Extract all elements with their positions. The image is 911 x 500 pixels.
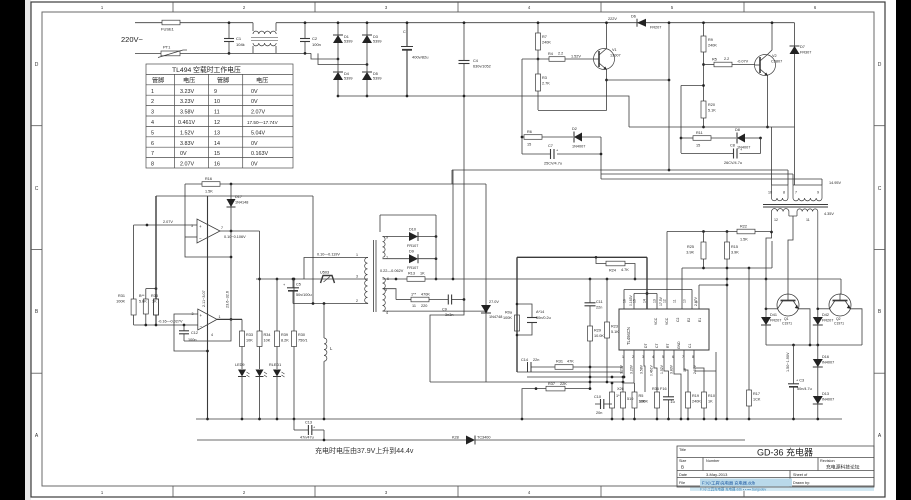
wire emitter to D6 rail [607, 79, 670, 81]
svg-text:C1: C1 [236, 36, 242, 41]
svg-text:4: 4 [151, 120, 154, 126]
wire V1 base [522, 58, 549, 60]
svg-text:C: C [403, 30, 406, 34]
resistor R31 100K [133, 225, 135, 299]
svg-text:FR307: FR307 [800, 51, 811, 55]
svg-text:Size: Size [679, 459, 686, 463]
svg-text:10K: 10K [246, 339, 253, 343]
svg-text:3.58V: 3.58V [180, 110, 194, 116]
resistor R10 1K [702, 392, 707, 408]
svg-text:5399: 5399 [344, 40, 352, 44]
LED LED9 [238, 370, 246, 377]
resistor R14 220 [396, 299, 411, 301]
svg-text:9: 9 [214, 89, 217, 95]
bridge right leg wire [366, 23, 368, 96]
svg-text:240K: 240K [542, 41, 551, 45]
svg-text:7: 7 [221, 226, 223, 230]
svg-text:4.7K: 4.7K [621, 268, 629, 272]
svg-text:3.23V: 3.23V [180, 99, 194, 105]
svg-text:220V~: 220V~ [121, 35, 144, 44]
pin voltage annotations top rotated [629, 295, 698, 306]
wire from mid-left area corner down [451, 170, 453, 184]
diode D7 FR307 [794, 23, 796, 185]
svg-text:电压: 电压 [256, 77, 268, 85]
resistor R27 510 [622, 377, 624, 392]
resistor R7 240K [537, 23, 539, 33]
svg-text:15: 15 [696, 144, 700, 148]
svg-text:20n: 20n [596, 411, 602, 415]
svg-text:R39: R39 [281, 333, 288, 337]
svg-text:1N4007: 1N4007 [572, 145, 585, 149]
pin voltage annotations bottom rotated [620, 364, 698, 376]
svg-text:14.95V: 14.95V [829, 181, 842, 185]
svg-text:5.1K: 5.1K [611, 330, 619, 334]
wire stubs into transformer primary [787, 170, 789, 185]
svg-text:750/1: 750/1 [298, 339, 308, 343]
capacitor C16 0.1u [668, 392, 670, 397]
wire Q2 base left [818, 308, 830, 310]
wire long vertical x727 junction dots [726, 284, 729, 287]
resistor R20 5.1K [701, 101, 706, 118]
svg-text:PT1: PT1 [163, 45, 171, 50]
svg-text:240K: 240K [692, 400, 701, 404]
svg-text:R36 F16: R36 F16 [652, 387, 667, 391]
svg-text:R5: R5 [712, 58, 717, 62]
LED LED10 [256, 370, 264, 377]
svg-text:0V: 0V [180, 151, 187, 157]
svg-text:Q2: Q2 [836, 317, 841, 321]
resistor R19 240K [687, 391, 689, 393]
svg-text:12: 12 [663, 299, 667, 303]
wire Q2 emitter down [851, 309, 863, 345]
resistor R37 22K row [522, 389, 546, 419]
resistor R26 1K [611, 383, 613, 392]
svg-text:5399: 5399 [373, 77, 381, 81]
svg-text:电压: 电压 [183, 77, 195, 85]
wire long vertical crossing op-amps [207, 196, 209, 419]
zener D11 1N4748 [485, 184, 487, 382]
svg-text:R7: R7 [542, 35, 547, 39]
svg-text:3.58V: 3.58V [640, 364, 644, 374]
svg-text:R24: R24 [609, 269, 616, 273]
svg-text:FR107: FR107 [407, 244, 418, 248]
wire bus down to Q2 [840, 279, 842, 294]
wire bus to transformer mid [601, 173, 793, 175]
svg-text:R17: R17 [753, 392, 760, 396]
svg-text:3-May-2013: 3-May-2013 [706, 472, 728, 477]
op-amp U1A [197, 219, 220, 243]
svg-text:2.11~3.07: 2.11~3.07 [202, 290, 206, 307]
capacitor C14b 22n and resistor R40 47K row [531, 366, 555, 368]
svg-text:C: C [878, 186, 882, 192]
wire opto box [304, 258, 368, 280]
common-mode choke L1 [252, 23, 254, 31]
svg-text:3.23V: 3.23V [620, 364, 624, 374]
svg-text:管脚: 管脚 [152, 77, 164, 85]
svg-text:25CV/4.7u: 25CV/4.7u [544, 162, 562, 166]
svg-text:3.83V: 3.83V [180, 141, 194, 147]
svg-text:10K: 10K [264, 339, 271, 343]
svg-text:Revision: Revision [820, 459, 835, 463]
svg-text:50v/100u: 50v/100u [296, 293, 312, 297]
svg-text:1**: 1** [411, 293, 417, 297]
resistor R17 10K [748, 268, 750, 390]
diode D3 5399 [362, 35, 372, 43]
transformer T2 secondary windings [383, 237, 386, 258]
svg-text:R31: R31 [118, 294, 125, 298]
svg-text:Sheet of: Sheet of [793, 473, 808, 477]
svg-text:12: 12 [214, 120, 220, 126]
resistor R32 5.6K [146, 288, 156, 290]
svg-text:C2: C2 [676, 318, 680, 322]
svg-text:D10: D10 [409, 228, 416, 232]
svg-text:104k: 104k [236, 42, 245, 47]
svg-text:R5: R5 [639, 394, 644, 398]
svg-text:7: 7 [386, 256, 388, 260]
resistor R11 15 [693, 136, 711, 141]
svg-text:14: 14 [214, 141, 220, 147]
svg-text:0V: 0V [683, 367, 687, 372]
resistor R39 8.2K [276, 279, 278, 331]
svg-text:D5: D5 [373, 72, 378, 76]
capacitor C7 25v/4.7u [522, 153, 550, 155]
svg-text:C12: C12 [191, 331, 198, 335]
svg-text:C11: C11 [596, 300, 603, 304]
svg-text:15: 15 [214, 151, 220, 157]
svg-text:.1u: .1u [670, 400, 675, 404]
svg-text:充电源科技论坛: 充电源科技论坛 [826, 464, 860, 471]
svg-text:K28: K28 [452, 436, 459, 440]
diode D1 5399 [333, 35, 343, 43]
svg-text:Number: Number [706, 459, 720, 463]
svg-text:50n/4.7u: 50n/4.7u [797, 387, 812, 391]
svg-text:FR207: FR207 [770, 319, 781, 323]
svg-text:Date: Date [679, 473, 687, 477]
svg-text:8: 8 [783, 191, 785, 195]
resistor R4 2.2 [549, 57, 565, 62]
svg-text:3.83V: 3.83V [670, 364, 674, 374]
svg-text:D6: D6 [631, 15, 636, 19]
svg-text:R33: R33 [246, 333, 253, 337]
svg-text:R34: R34 [264, 333, 271, 337]
diode D9 FR107 [409, 254, 418, 263]
svg-text:10: 10 [768, 191, 772, 195]
svg-text:5.1K: 5.1K [708, 109, 716, 113]
wire C4 line elbow loop [430, 300, 464, 383]
svg-text:C4: C4 [473, 59, 478, 63]
resistor R23 5.1K [606, 279, 608, 322]
thermistor PT1 [161, 51, 180, 56]
svg-text:D: D [35, 62, 39, 68]
capacitor C3 50v/4.7u [793, 345, 795, 384]
svg-text:5.6K: 5.6K [139, 300, 147, 304]
svg-text:R31: R31 [556, 360, 563, 364]
zone number labels top [101, 5, 817, 10]
diode D8 1N4007 [737, 134, 745, 143]
svg-text:Q1: Q1 [784, 317, 789, 321]
svg-text:7: 7 [795, 191, 797, 195]
svg-text:D4: D4 [344, 72, 349, 76]
svg-text:R3: R3 [542, 76, 547, 80]
svg-text:GD-36 充电器: GD-36 充电器 [757, 447, 813, 458]
svg-text:C3807: C3807 [771, 60, 782, 64]
zener D42 FR207 [817, 309, 819, 345]
svg-text:R13: R13 [408, 272, 415, 276]
svg-text:C1971: C1971 [834, 322, 844, 326]
DC- bus [338, 96, 629, 127]
svg-text:D: D [878, 62, 882, 68]
svg-text:1.52V: 1.52V [660, 364, 664, 374]
svg-text:R23: R23 [611, 325, 618, 329]
svg-text:2.07V: 2.07V [180, 162, 194, 168]
svg-text:E1: E1 [698, 318, 702, 322]
capacitor C2 [304, 23, 306, 38]
wire op2 + input [174, 314, 208, 351]
svg-text:F:\小工具\充电器 充电器.ddb: F:\小工具\充电器 充电器.ddb [702, 480, 756, 487]
svg-text:C8: C8 [730, 144, 735, 148]
svg-text:C5: C5 [296, 283, 301, 287]
svg-text:13007: 13007 [610, 54, 621, 58]
diode D16 1N4007 [817, 345, 819, 396]
svg-text:5: 5 [151, 130, 154, 136]
svg-text:D3: D3 [373, 35, 378, 39]
svg-text:222V: 222V [608, 17, 617, 21]
svg-text:17.5V: 17.5V [659, 296, 663, 306]
svg-text:R4: R4 [548, 52, 553, 56]
svg-text:D13: D13 [822, 392, 829, 396]
svg-text:22n: 22n [533, 358, 539, 362]
svg-text:510: 510 [627, 397, 633, 401]
svg-text:3.23V: 3.23V [180, 89, 194, 95]
svg-text:5399: 5399 [344, 77, 352, 81]
wire op1 - input [185, 236, 197, 238]
wire op2 - input bus [134, 324, 198, 326]
resistor R6 15 [524, 135, 542, 140]
capacitor C13 47u [293, 419, 295, 430]
svg-text:100K: 100K [639, 400, 648, 404]
diode D10 FR107 [409, 232, 418, 241]
resistor R5b 10K [634, 383, 636, 392]
svg-text:16: 16 [214, 162, 220, 168]
IC pin names top row rotated [654, 317, 702, 325]
resistor R3 2.7K [537, 59, 539, 74]
svg-text:管脚: 管脚 [217, 77, 229, 85]
wire snubber V1 return [600, 137, 602, 174]
diode D13 1N4007 [817, 396, 819, 419]
wire vertical from top bus at D6 node [668, 23, 670, 170]
svg-text:3: 3 [151, 110, 154, 116]
svg-text:C14: C14 [521, 358, 528, 362]
svg-text:−: − [199, 236, 202, 241]
svg-text:1K: 1K [420, 272, 425, 276]
svg-text:D42: D42 [822, 313, 829, 317]
svg-text:400v/82u: 400v/82u [412, 55, 428, 60]
wire jog rails left of IC [527, 376, 623, 378]
svg-text:0.22—0.062V: 0.22—0.062V [380, 269, 404, 273]
diode D4 5399 [333, 72, 343, 80]
svg-text:630v/1052: 630v/1052 [473, 65, 491, 69]
svg-text:R15: R15 [731, 245, 738, 249]
op-amp U1B [198, 309, 217, 330]
wire vertical right of IC [715, 352, 717, 419]
IC top pin leads [624, 232, 727, 310]
svg-text:R10: R10 [708, 394, 715, 398]
svg-text:FR207: FR207 [822, 319, 833, 323]
resistor R36 100K [655, 392, 660, 408]
resistor R15 5.1K [726, 232, 728, 243]
wire AC line bottom [135, 52, 161, 54]
svg-text:Drawn by:: Drawn by: [793, 481, 810, 485]
wire driver bottom rail [629, 126, 795, 128]
svg-text:2: 2 [356, 299, 358, 303]
wire V1 collector [606, 23, 608, 49]
main bus y279 right part [590, 278, 841, 280]
wire V1 emitter [606, 70, 608, 111]
svg-text:2.07V: 2.07V [251, 110, 265, 116]
svg-text:D2: D2 [572, 127, 577, 131]
svg-text:R16: R16 [205, 177, 212, 181]
svg-text:100n: 100n [312, 42, 321, 47]
svg-text:10: 10 [214, 99, 220, 105]
svg-text:RT: RT [666, 344, 670, 348]
wire AC to bridge top [276, 22, 338, 24]
svg-text:+ C3: + C3 [796, 379, 804, 383]
svg-text:C1971: C1971 [782, 322, 792, 326]
svg-text:D7: D7 [800, 45, 805, 49]
transformer T1 primary winding [772, 185, 823, 201]
snubber wire V1 [521, 59, 523, 154]
svg-text:2: 2 [151, 99, 154, 105]
svg-text:4.35V: 4.35V [824, 212, 834, 216]
wire bus to transformer upper [452, 169, 788, 171]
svg-text:C10: C10 [594, 395, 601, 399]
svg-text:Title: Title [679, 448, 686, 452]
svg-text:22K: 22K [560, 382, 567, 386]
svg-text:R25: R25 [687, 245, 694, 249]
svg-text:14: 14 [643, 299, 647, 303]
svg-text:D17: D17 [235, 195, 242, 199]
svg-text:GND: GND [677, 341, 681, 349]
IC U2 TL494CN body [619, 309, 709, 350]
wire T1 secondary left leg [766, 232, 772, 279]
wire bus y196 [156, 195, 313, 197]
resistor R9 240K [703, 23, 705, 36]
svg-text:100K: 100K [116, 300, 125, 304]
svg-text:15: 15 [527, 143, 531, 147]
svg-text:1: 1 [219, 315, 221, 319]
capacitor C10 20n [595, 403, 600, 405]
wire vertical from y196 bus down [312, 196, 314, 304]
LED RLED1 [273, 370, 281, 377]
wire rail y372 from thick bus [517, 371, 623, 373]
wire op2 feedback [184, 319, 231, 341]
svg-text:E2: E2 [687, 318, 691, 322]
wire T2 pin9 to D10 [383, 236, 410, 238]
svg-text:TL494 空载时工作电压: TL494 空载时工作电压 [172, 65, 241, 74]
svg-text:22n: 22n [596, 306, 602, 310]
wire op1 output down to comparator rail [259, 231, 261, 331]
resistor R24 4.7K [596, 257, 606, 263]
svg-text:0V: 0V [251, 141, 258, 147]
svg-text:C2: C2 [312, 36, 318, 41]
svg-text:R19: R19 [692, 394, 699, 398]
svg-text:15: 15 [633, 299, 637, 303]
svg-text:0.163V: 0.163V [251, 151, 268, 157]
TL494 voltage table [146, 64, 293, 168]
resistor R34 10K [259, 330, 261, 332]
svg-text:LED9: LED9 [235, 363, 245, 367]
zener D41 FR207 [765, 279, 767, 345]
svg-text:4: 4 [386, 311, 388, 315]
svg-text:11: 11 [412, 304, 416, 308]
wire T1 center tap to Q1 [788, 216, 793, 294]
svg-text:A*14: A*14 [536, 310, 544, 314]
svg-text:IN4007: IN4007 [822, 398, 834, 402]
svg-text:C1: C1 [688, 344, 692, 348]
capacitor C8 25v/4.7u [760, 138, 762, 154]
wire AC jog into bridge left node [311, 53, 338, 59]
svg-text:C: C [35, 186, 39, 192]
svg-text:V1: V1 [612, 48, 617, 52]
svg-text:8.2K: 8.2K [281, 339, 289, 343]
transformer T1 core [763, 204, 828, 206]
svg-text:2.2: 2.2 [724, 57, 729, 61]
resistor R13 1K in bus [383, 278, 408, 280]
svg-text:47K: 47K [567, 360, 574, 364]
svg-text:1N4748: 1N4748 [489, 315, 502, 319]
wire R20 top jog [681, 85, 704, 87]
wire V2 base [704, 64, 715, 66]
resistor R16 1.5K [185, 183, 202, 185]
wire Q1 emitter down [799, 309, 811, 345]
svg-text:R30: R30 [298, 333, 305, 337]
svg-text:IN4007: IN4007 [822, 361, 834, 365]
svg-text:26CV/4.7u: 26CV/4.7u [724, 161, 742, 165]
svg-text:1.52V: 1.52V [180, 130, 194, 136]
wire T2 pin7 to D9 [383, 258, 410, 260]
main bus y419 [196, 418, 842, 420]
svg-text:1.5K: 1.5K [740, 238, 748, 242]
svg-text:-0.16—0.027V: -0.16—0.027V [158, 320, 183, 324]
svg-text:1K: 1K [152, 300, 157, 304]
transformer T2 primary winding [365, 258, 368, 304]
resistor R30 750 [293, 279, 295, 331]
svg-text:VCC: VCC [665, 317, 669, 325]
svg-text:1.50~1.90V: 1.50~1.90V [786, 352, 790, 372]
IC pin numbers bottom [622, 355, 694, 359]
svg-text:10: 10 [683, 299, 687, 303]
svg-text:50n/0.2u: 50n/0.2u [536, 316, 551, 320]
svg-text:R0a: R0a [505, 311, 513, 315]
svg-text:47n/47u: 47n/47u [300, 436, 314, 440]
svg-text:1K: 1K [708, 400, 713, 404]
svg-text:R33: R33 [151, 294, 158, 298]
wire mid vertical A [452, 170, 454, 279]
svg-text:0.10~0.106V: 0.10~0.106V [224, 235, 246, 239]
svg-text:13: 13 [653, 299, 657, 303]
svg-text:TC3400: TC3400 [477, 436, 491, 440]
svg-text:1N4148: 1N4148 [235, 201, 248, 205]
wire V2 collector [768, 23, 773, 55]
main bus y279 left part [256, 278, 368, 280]
svg-text:3.9K: 3.9K [686, 251, 694, 255]
svg-text:+: + [200, 313, 203, 318]
svg-text:0.461V: 0.461V [650, 365, 654, 376]
svg-text:R9: R9 [708, 38, 713, 42]
transistor V2 C3807 [755, 55, 776, 76]
svg-text:D1: D1 [344, 35, 349, 39]
svg-text:2.07V: 2.07V [163, 220, 173, 224]
